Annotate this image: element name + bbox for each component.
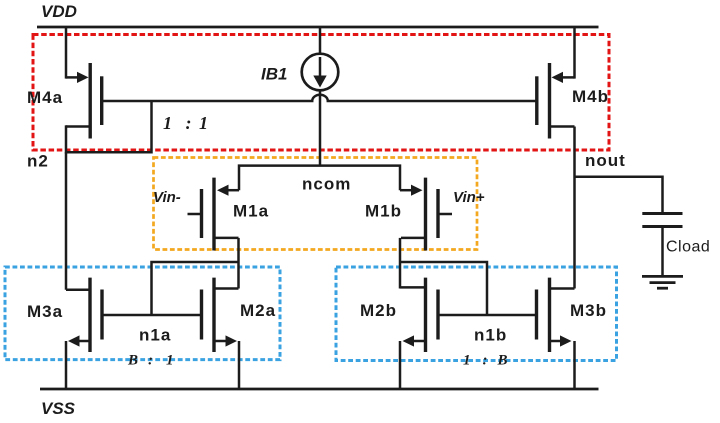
svg-text:M4b: M4b (572, 87, 609, 106)
transistor M4a (66, 27, 102, 154)
wire M4a diode connection (gate to n2) (150, 101, 153, 154)
wire nout rail to Cload (575, 177, 663, 214)
wire M4b drain to nout / M3b drain column (573, 127, 576, 289)
wire right mirror gate line (438, 314, 537, 317)
transistor M3b (537, 278, 575, 389)
svg-text:M3a: M3a (27, 302, 63, 321)
transistor M1b (400, 178, 452, 251)
svg-text:Vin+: Vin+ (453, 189, 485, 206)
svg-text:M3b: M3b (570, 301, 607, 320)
svg-text:M2b: M2b (360, 301, 397, 320)
transistor M2b (400, 278, 438, 389)
transistor M1a (188, 178, 240, 251)
wire junction to right mirror gates (400, 262, 487, 315)
wire VDD rail (37, 26, 599, 29)
wire VSS rail (40, 388, 599, 391)
wire node n2 rail (66, 151, 152, 154)
blue dashed box right (1:B mirror M2b/M3b) (336, 267, 617, 361)
wire ncom rail (239, 166, 400, 191)
transistor M2a (202, 278, 240, 389)
blue dashed box left (B:1 mirror M3a/M2a) (5, 267, 280, 360)
wire n2 to M3a drain (65, 152, 68, 289)
svg-text:IB1: IB1 (261, 65, 287, 84)
wire M4 gate line with hop over IB1 wire (102, 95, 537, 101)
svg-text:1:B: 1:B (463, 353, 508, 369)
transistor M3a (66, 278, 102, 389)
capacitor Cload (642, 214, 682, 277)
svg-text:n1a: n1a (139, 326, 171, 345)
svg-text:n1b: n1b (474, 326, 507, 345)
svg-text:M4a: M4a (27, 88, 63, 107)
wire M1b drain down to n1b group (399, 238, 402, 289)
svg-text:B:1: B:1 (127, 353, 174, 369)
svg-text:1:1: 1:1 (163, 113, 208, 133)
wire M1a drain down to n1a group (237, 238, 240, 289)
current source IB1 (302, 27, 339, 166)
svg-text:Vin-: Vin- (153, 189, 181, 206)
red dashed box (1:1 mirror M4a/M4b) (33, 35, 609, 151)
svg-text:VSS: VSS (41, 399, 76, 418)
transistor M4b (537, 27, 575, 139)
svg-text:n2: n2 (27, 152, 49, 171)
svg-text:M1b: M1b (365, 202, 402, 221)
orange dashed box (input pair M1a/M1b) (154, 158, 478, 250)
ground symbol (642, 276, 683, 288)
svg-text:nout: nout (585, 151, 626, 170)
svg-text:M2a: M2a (240, 301, 276, 320)
svg-text:M1a: M1a (233, 202, 269, 221)
svg-text:Cload: Cload (666, 239, 710, 256)
svg-text:ncom: ncom (302, 175, 351, 194)
svg-text:VDD: VDD (41, 2, 77, 21)
wire junction to left mirror gates (152, 262, 239, 315)
wire left mirror gate line (102, 314, 202, 317)
